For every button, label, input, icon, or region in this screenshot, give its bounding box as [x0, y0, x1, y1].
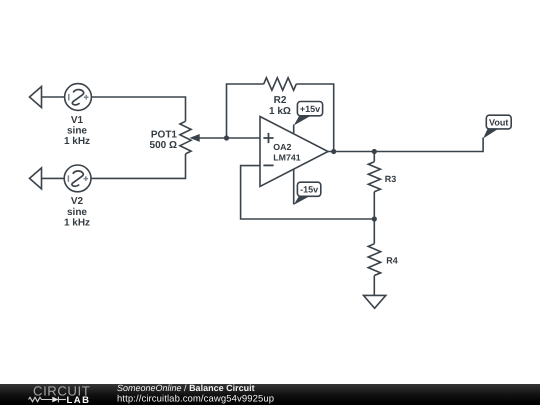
svg-text:http://circuitlab.com/cawg54v9: http://circuitlab.com/cawg54v9925up: [117, 394, 274, 405]
svg-text:SomeoneOnline / Balance Circui: SomeoneOnline / Balance Circuit: [117, 383, 255, 393]
svg-text:LAB: LAB: [67, 395, 91, 405]
